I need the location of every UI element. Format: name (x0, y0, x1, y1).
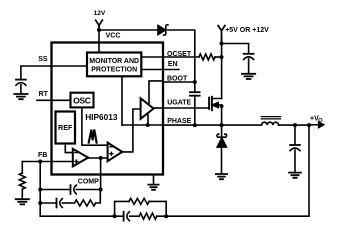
ground FB resistor (16, 199, 29, 204)
block MONITOR AND PROTECTION (87, 53, 141, 77)
wire gate driver output to UGATE pin (154, 107, 164, 109)
wire FB rail down left side of compensation network (38, 162, 116, 219)
svg-text:FB: FB (38, 152, 47, 159)
wire +5V rail to decoupling capacitor (222, 44, 249, 54)
ground COUT (289, 173, 301, 178)
resistor feedback RZ (130, 213, 157, 219)
wire resistor to ground (21, 189, 23, 199)
wire monitor to OCSET pin (141, 56, 163, 58)
label FB pin (38, 152, 47, 159)
wire Q1 drain up to +5V rail (221, 37, 223, 99)
wire VCC node down into IC VCC pin (98, 30, 100, 53)
capacitor soft-start CSS (16, 80, 26, 86)
capacitor feedback CZ (124, 212, 130, 221)
ground CVCC (242, 74, 255, 79)
IC HIP6013 outline U1 (52, 43, 164, 175)
label RT pin (39, 91, 49, 98)
ground D2 (216, 174, 227, 179)
wire comp branch A right segment (76, 189, 100, 191)
wire comp branch A left segment (40, 189, 70, 191)
wire OCSET pin to resistor ROCSET (163, 56, 199, 58)
capacitor output COUT (290, 145, 300, 151)
svg-text:O: O (318, 118, 323, 124)
wire UGATE pin to MOSFET gate (163, 107, 208, 109)
label BOOT pin (167, 76, 188, 83)
svg-text:UGATE: UGATE (167, 100, 191, 107)
wire 12V supply to VCC node (96, 20, 103, 32)
wire BOOT pin to bootstrap node (163, 80, 197, 84)
svg-text:COMP: COMP (78, 178, 99, 185)
svg-text:+5V OR +12V: +5V OR +12V (225, 27, 269, 34)
ground CSS (14, 94, 27, 99)
svg-text:OSC: OSC (73, 95, 91, 105)
wire CBOOT down to PHASE line (193, 96, 197, 127)
label OCSET pin (167, 51, 192, 58)
arrow +VO output (309, 122, 324, 127)
wire PHASE pin to inductor (163, 124, 261, 126)
svg-text:12V: 12V (94, 10, 106, 17)
label PHASE pin (167, 118, 191, 125)
wire FB to lower resistor (21, 162, 23, 174)
wire gate driver bottom to internal phase line (147, 114, 149, 126)
svg-text:MONITOR AND: MONITOR AND (89, 58, 139, 65)
ground IC GND pin (148, 175, 158, 190)
wire REF to error amp non-inverting input (65, 144, 72, 153)
label EN pin (168, 61, 178, 68)
op-amp PWM comparator (108, 143, 123, 162)
label HIP6013 (85, 112, 118, 122)
wire ROCSET to +5V rail (215, 55, 224, 59)
label COMP pin (78, 178, 99, 185)
sawtooth waveform symbol M (89, 130, 97, 143)
svg-text:VCC: VCC (106, 33, 121, 40)
svg-text:PHASE: PHASE (167, 118, 191, 125)
wire VCC node to diode D1 anode (99, 29, 158, 31)
resistor feedback parallel upper R1 (115, 198, 167, 216)
label SS pin (38, 56, 48, 63)
schottky diode D1 (12V to BOOT) (158, 25, 168, 35)
inductor LOUT (261, 117, 280, 126)
wire error amp output to COMP node and PWM comparator (88, 156, 107, 160)
capacitor bootstrap CBOOT (190, 92, 200, 96)
wire comp branch B left segment (40, 202, 56, 204)
wire BOOT node to bootstrap capacitor (194, 82, 196, 92)
wire internal phase line (122, 123, 163, 127)
wire OSC to PWM comparator sawtooth input (82, 107, 107, 145)
label 12V (94, 10, 106, 17)
wire monitor down to internal phase line (121, 76, 123, 125)
resistor comp R2 (62, 200, 95, 206)
svg-text:RT: RT (39, 91, 49, 98)
wire comp branch B up to COMP node (96, 190, 101, 204)
resistor FB divider lower (19, 173, 25, 189)
wire EN pin stub (163, 69, 179, 71)
wire COUT to ground (294, 150, 296, 172)
wire RT pin stub to OSC (37, 99, 71, 101)
resistor ROCSET (199, 54, 215, 60)
block OSC (71, 93, 94, 108)
capacitor comp C1 (71, 185, 77, 194)
wire FB pin to error amp inverting input (22, 160, 72, 164)
wire COMP pin down to compensation node (99, 158, 103, 192)
wire VO feedback down to divider (308, 125, 310, 216)
svg-text:REF: REF (58, 123, 73, 132)
capacitor decoupling CVCC (244, 54, 254, 60)
svg-text:PROTECTION: PROTECTION (91, 67, 137, 74)
op-amp error amplifier (73, 149, 88, 167)
wire Q1 source down to PHASE line (220, 104, 224, 127)
transistor Q1 MOSFET (209, 97, 222, 110)
svg-text:HIP6013: HIP6013 (85, 112, 118, 122)
label +VO (310, 116, 323, 124)
wire VO node to output capacitor (294, 125, 296, 145)
wire feedback row to divider network (115, 215, 124, 217)
wire monitor to EN pin (141, 69, 163, 71)
wire BOOT pin into gate driver top (149, 81, 163, 104)
supply +5V OR +12V arrow (218, 26, 225, 46)
svg-text:SS: SS (38, 56, 48, 63)
wire CSS to ground (20, 85, 22, 94)
wire feedback row right segment to VO riser (157, 214, 309, 218)
schottky diode D2 freewheeling (217, 125, 227, 173)
label UGATE pin (167, 100, 191, 107)
wire PWM comparator output to gate driver input (122, 109, 140, 152)
label +5V OR +12V (225, 27, 269, 34)
wire inductor to VO node (279, 123, 311, 127)
svg-text:EN: EN (168, 61, 178, 68)
wire CVCC to ground (248, 59, 250, 73)
block REF (56, 112, 76, 144)
wire D1 cathode down to BOOT node (168, 30, 195, 81)
op-amp gate driver (141, 98, 154, 119)
capacitor comp C2 (57, 199, 63, 208)
wire SS pin to soft-start capacitor (21, 66, 87, 79)
label VCC pin (106, 33, 121, 40)
